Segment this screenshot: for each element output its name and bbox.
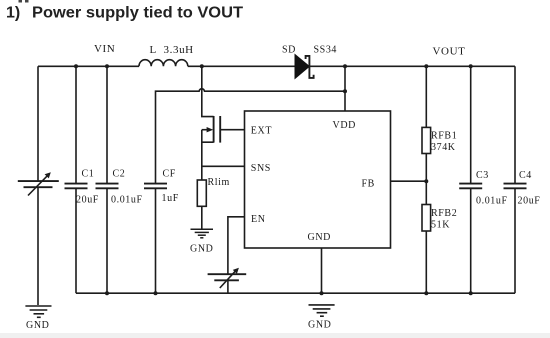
wire C3 branch upper xyxy=(470,66,472,183)
wire VDD node horizontal with hop xyxy=(156,89,346,184)
transistor Q1 gate bar xyxy=(219,116,221,143)
transistor Q1 source wire xyxy=(202,130,214,180)
page bottom gray strip xyxy=(0,333,550,338)
wire CF branch lower xyxy=(155,188,157,293)
wire supply branch upper xyxy=(37,66,39,181)
svg-text:EXT: EXT xyxy=(251,125,272,136)
junction dot SD node xyxy=(200,64,204,68)
svg-text:GND: GND xyxy=(308,232,331,243)
wire top rail left segment xyxy=(38,65,139,67)
wire C2 branch upper xyxy=(106,66,108,183)
svg-text:VOUT: VOUT xyxy=(433,46,466,58)
power supply variable arrow xyxy=(28,176,47,196)
svg-text:C4: C4 xyxy=(519,170,532,181)
EN variable arrow xyxy=(220,270,237,288)
svg-text:SNS: SNS xyxy=(251,163,271,174)
capacitor C2 xyxy=(96,183,119,185)
svg-text:GND: GND xyxy=(26,320,49,331)
svg-text:VDD: VDD xyxy=(333,120,356,131)
svg-text:Power supply tied to VOUT: Power supply tied to VOUT xyxy=(32,5,243,22)
wire SD node drain vertical xyxy=(202,66,214,116)
junction dot C3 top xyxy=(469,64,473,68)
junction dot RFB bottom xyxy=(424,291,428,295)
svg-text:VIN: VIN xyxy=(94,43,115,55)
wire Rlim to ground xyxy=(201,206,203,229)
junction dot C1 top xyxy=(74,64,78,68)
wire bottom rail xyxy=(76,292,515,294)
wire C1 branch upper xyxy=(75,66,77,183)
op-amp U1 IC body xyxy=(245,111,391,248)
junction dot GND pin xyxy=(320,291,324,295)
svg-text:RFB2: RFB2 xyxy=(431,208,457,219)
junction dot RFB top xyxy=(424,64,428,68)
wire EN branch xyxy=(228,217,245,274)
capacitor C1 xyxy=(65,183,88,185)
svg-text:CF: CF xyxy=(163,169,176,180)
svg-text:1uF: 1uF xyxy=(162,193,179,204)
wire VDD pin vertical xyxy=(344,66,346,111)
wire rail to diode xyxy=(188,65,295,67)
wire supply branch lower xyxy=(37,187,39,305)
junction dot C2 top xyxy=(105,64,109,68)
cropped text remnants top edge xyxy=(19,0,29,3)
wire RFB middle xyxy=(425,154,427,205)
capacitor C3 xyxy=(459,183,482,185)
svg-text:20uF: 20uF xyxy=(76,195,99,206)
svg-text:C1: C1 xyxy=(82,169,95,180)
junction dot C2 bottom xyxy=(105,291,109,295)
diode schottky cathode bar xyxy=(306,56,314,78)
svg-text:374K: 374K xyxy=(431,142,456,153)
svg-text:SS34: SS34 xyxy=(314,45,338,56)
svg-text:SD: SD xyxy=(282,45,296,56)
svg-text:51K: 51K xyxy=(431,220,450,231)
resistor Rlim xyxy=(197,180,206,206)
svg-text:RFB1: RFB1 xyxy=(431,131,457,142)
resistor RFB2 xyxy=(422,205,431,232)
junction dot VDD mid xyxy=(343,89,347,93)
junction dot C3 bottom xyxy=(469,291,473,295)
diode SS34 xyxy=(295,55,309,79)
transistor Q1 body stub with arrow xyxy=(202,129,210,131)
ground (Rlim) xyxy=(191,229,214,238)
svg-text:1): 1) xyxy=(6,5,20,22)
svg-text:0.01uF: 0.01uF xyxy=(476,196,508,207)
capacitor C4 xyxy=(504,183,527,185)
svg-text:GND: GND xyxy=(190,244,213,255)
inductor L 3.3uH xyxy=(139,60,188,67)
junction dot VDD top xyxy=(343,64,347,68)
wire right edge upper (C4 branch) xyxy=(514,66,516,183)
svg-text:C3: C3 xyxy=(476,170,489,181)
ground (supply) xyxy=(25,306,51,317)
wire C3 branch lower xyxy=(470,188,472,293)
wire GND pin vertical xyxy=(321,248,323,293)
svg-text:Rlim: Rlim xyxy=(208,177,230,188)
svg-text:L 3.3uH: L 3.3uH xyxy=(150,44,194,56)
ground (IC) xyxy=(309,305,335,316)
wire top rail right segment xyxy=(309,65,515,67)
wire EN branch lower xyxy=(227,280,229,293)
capacitor CF xyxy=(144,183,167,185)
svg-text:EN: EN xyxy=(251,214,266,225)
wire gate to EXT xyxy=(220,129,244,131)
svg-text:C2: C2 xyxy=(113,169,126,180)
wire FB xyxy=(391,180,427,182)
power supply variable source plates xyxy=(18,180,59,182)
wire RFB branch top xyxy=(425,66,427,127)
wire right edge lower xyxy=(514,188,516,293)
wire RFB bottom xyxy=(425,231,427,293)
resistor RFB1 xyxy=(422,127,431,153)
svg-text:20uF: 20uF xyxy=(518,196,541,207)
wire SNS xyxy=(202,165,245,167)
svg-text:GND: GND xyxy=(308,319,331,330)
wire C2 branch lower xyxy=(106,188,108,293)
wire C1 branch lower xyxy=(75,188,77,293)
transistor Q1 channel bar xyxy=(213,116,215,143)
svg-text:FB: FB xyxy=(362,178,375,189)
junction dot CF bottom xyxy=(154,291,158,295)
junction dot FB xyxy=(424,179,428,183)
svg-text:0.01uF: 0.01uF xyxy=(111,195,143,206)
EN variable source plates xyxy=(208,273,247,275)
